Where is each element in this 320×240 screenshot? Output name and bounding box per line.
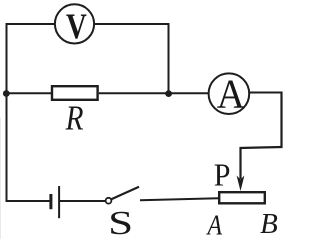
battery negative short plate — [49, 194, 52, 209]
svg-text:R: R — [65, 98, 84, 137]
svg-text:B: B — [260, 209, 278, 239]
wire bottom-left horizontal — [6, 200, 51, 202]
svg-text:A: A — [217, 70, 245, 116]
battery positive long plate — [58, 186, 60, 218]
wire connector horizontal above potentiometer — [240, 147, 283, 148]
wire wiper arrow stem — [239, 147, 241, 179]
wire from switch to potentiometer — [140, 198, 219, 200]
wire left vertical — [6, 23, 8, 202]
svg-text:A: A — [206, 209, 223, 239]
faint scan edge streak — [0, 118, 2, 239]
switch S pivot — [106, 198, 112, 204]
resistor R box — [52, 86, 98, 100]
wire middle horizontal right of resistor — [99, 92, 209, 94]
ammeter A1 circle — [209, 73, 250, 114]
wire from ammeter right — [250, 92, 283, 94]
voltmeter V1 circle — [55, 4, 94, 43]
svg-text:S: S — [108, 204, 133, 239]
wire top-right horizontal — [95, 23, 170, 25]
wire middle horizontal left of resistor — [6, 92, 53, 94]
svg-text:P: P — [214, 157, 231, 193]
wire battery to switch — [60, 200, 106, 202]
svg-text:V: V — [66, 7, 87, 47]
switch S lever — [111, 187, 139, 199]
wiper arrowhead — [237, 176, 245, 192]
potentiometer P box — [219, 192, 265, 203]
wire right edge vertical — [280, 92, 282, 149]
wire top-left horizontal — [6, 23, 55, 25]
wire right-branch vertical down to node — [168, 23, 170, 94]
node right junction dot — [165, 90, 172, 97]
node left junction dot — [3, 90, 10, 97]
